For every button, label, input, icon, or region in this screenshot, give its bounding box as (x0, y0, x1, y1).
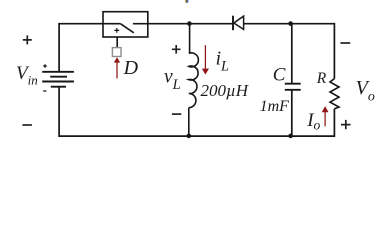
node top of inductor (187, 21, 192, 26)
capacitor top plate (285, 83, 301, 85)
wire top rail left (battery to switch box) (59, 24, 103, 72)
node top of capacitor (288, 21, 293, 26)
svg-text:1mF: 1mF (260, 98, 290, 115)
capacitor bottom stem (291, 90, 293, 136)
svg-text:D: D (123, 57, 139, 79)
inductor L wire + 4 loops (189, 24, 199, 136)
Vo minus sign (340, 42, 350, 44)
switch box S (103, 12, 148, 37)
node bottom of inductor (187, 134, 192, 139)
battery plate2 short (50, 76, 67, 78)
battery Vin: plate1 long (42, 71, 74, 73)
switch gate stem (116, 37, 118, 48)
D control arrow (red, up) (116, 62, 118, 78)
capacitor bottom plate (285, 89, 301, 91)
iL current arrow (red, down) (204, 45, 206, 69)
resistor R zigzag (330, 79, 339, 109)
battery small plus (43, 64, 47, 68)
wire bottom rail (59, 87, 334, 136)
switch plus marker (114, 28, 119, 33)
Vin minus sign (22, 124, 32, 126)
svg-text:200µH: 200µH (201, 81, 250, 100)
svg-text:C: C (273, 64, 286, 85)
switch right contact (133, 23, 148, 25)
stray clipped speck at top (185, 0, 186, 3)
battery plate4 short (51, 86, 66, 88)
diode cathode bar (232, 16, 234, 31)
switch left contact (103, 23, 120, 25)
svg-text:R: R (316, 70, 327, 87)
switch blade (120, 24, 133, 33)
wire top rail from diode to top-right corner (244, 24, 335, 79)
Io current arrow (red, up) (324, 112, 326, 127)
battery small minus (43, 90, 46, 92)
capacitor top stem (291, 24, 293, 84)
wire top rail right (switch box to diode anode bar region) (148, 23, 233, 25)
Vin plus sign (23, 35, 32, 44)
gate square (gray) (112, 48, 121, 57)
battery plate3 long (42, 81, 74, 83)
inductor minus (172, 113, 181, 115)
inductor plus (172, 45, 181, 54)
Vo plus sign (341, 120, 351, 129)
node bottom of capacitor (288, 134, 293, 139)
diode triangle (open, pointing left) (234, 16, 244, 29)
